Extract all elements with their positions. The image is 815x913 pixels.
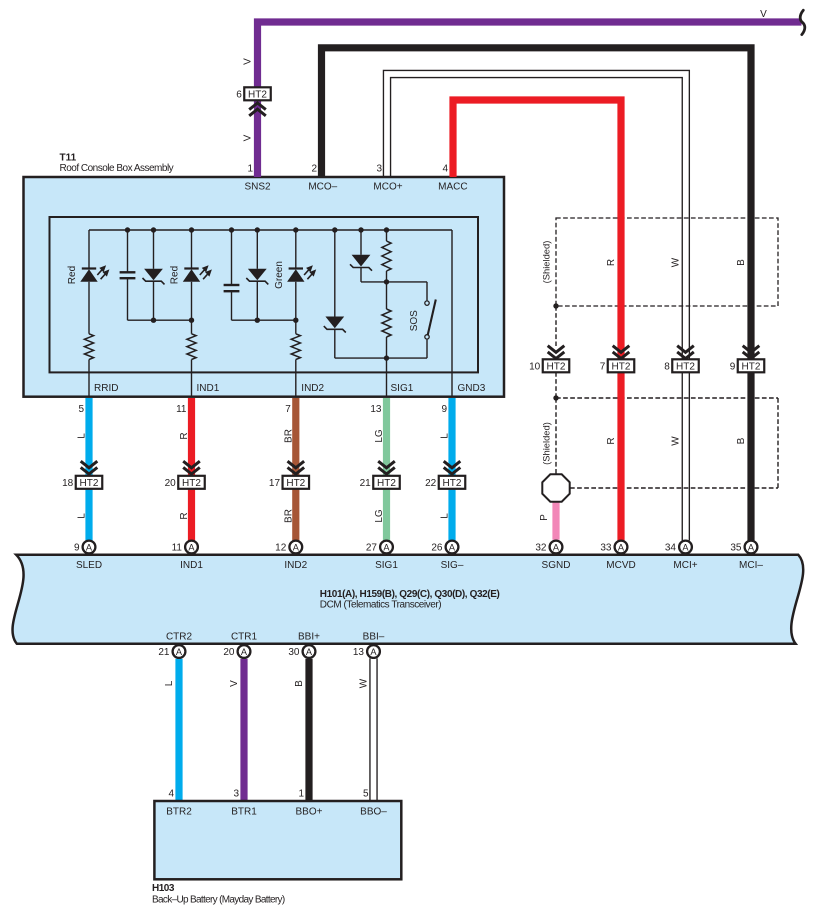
- wire resistor R4 to mid node: [386, 271, 388, 282]
- svg-text:10: 10: [529, 361, 541, 372]
- svg-text:P: P: [539, 514, 550, 521]
- wire SIG1 out: [386, 358, 388, 397]
- connector 8 HT2 chevron: [677, 346, 694, 353]
- svg-text:BTR2: BTR2: [166, 807, 192, 818]
- resistor R3: [291, 334, 300, 360]
- svg-text:A: A: [293, 542, 300, 552]
- svg-text:R: R: [606, 259, 617, 266]
- shielded cable dashed box upper: [556, 218, 778, 306]
- svg-text:RRID: RRID: [94, 383, 118, 394]
- svg-text:9: 9: [74, 543, 80, 554]
- svg-text:12: 12: [275, 543, 287, 554]
- zener diode ZD3: [325, 317, 344, 329]
- pin 21 circle CTR2: [173, 645, 186, 658]
- svg-text:SGND: SGND: [542, 560, 571, 571]
- svg-text:R: R: [179, 432, 190, 439]
- pin 33 circle MCVD: [615, 541, 628, 554]
- svg-text:2: 2: [311, 164, 317, 175]
- svg-text:A: A: [682, 542, 689, 552]
- svg-text:Green: Green: [274, 261, 285, 289]
- pin 32 circle SGND: [550, 541, 563, 554]
- wire L from T11 pin 9 to DCM SIG&#8211;: [448, 398, 455, 541]
- resistor R2: [187, 334, 196, 360]
- connector 8 HT2 box: [672, 359, 699, 372]
- svg-text:5: 5: [363, 789, 369, 800]
- svg-text:21: 21: [360, 478, 372, 489]
- pin 27 circle SIG1: [380, 541, 393, 554]
- svg-text:CTR2: CTR2: [166, 632, 193, 643]
- wire GND3 branch: [451, 230, 453, 397]
- svg-text:HT2: HT2: [248, 89, 267, 100]
- svg-text:7: 7: [600, 361, 606, 372]
- wire L from T11 pin 5 to DCM SLED: [85, 398, 92, 541]
- wire zener ZD1 to node: [153, 281, 155, 320]
- svg-text:L: L: [440, 513, 451, 519]
- svg-text:6: 6: [236, 89, 242, 100]
- junction dot ZD2 node: [255, 318, 260, 323]
- svg-text:SLED: SLED: [76, 560, 102, 571]
- svg-text:BBI+: BBI+: [298, 632, 320, 643]
- svg-text:IND1: IND1: [197, 383, 220, 394]
- svg-text:W: W: [671, 257, 682, 267]
- svg-text:27: 27: [366, 543, 378, 554]
- svg-text:BR: BR: [283, 509, 294, 523]
- svg-text:9: 9: [730, 361, 736, 372]
- connector 20 HT2 box: [178, 476, 205, 489]
- connector 17 HT2 chevron: [288, 461, 305, 468]
- wire P pink shield ground: [552, 500, 559, 540]
- svg-text:IND1: IND1: [180, 560, 203, 571]
- LED Red D1: [82, 267, 96, 269]
- svg-text:3: 3: [233, 789, 239, 800]
- resistor R5: [382, 309, 391, 337]
- wire break squiggle at right end of V wire: [800, 10, 805, 34]
- svg-text:4: 4: [442, 164, 448, 175]
- svg-text:BBO–: BBO–: [360, 807, 387, 818]
- svg-text:DCM (Telematics Transceiver): DCM (Telematics Transceiver): [320, 600, 441, 611]
- wire zener ZD1 branch: [153, 230, 155, 269]
- svg-text:18: 18: [62, 478, 74, 489]
- svg-text:(Shielded): (Shielded): [541, 422, 552, 465]
- pin 12 circle IND2: [289, 541, 302, 554]
- svg-text:L: L: [77, 513, 88, 519]
- wire W from DCM BBI&#8211; to battery BBO&#8211;: [369, 658, 371, 801]
- svg-text:HT2: HT2: [676, 361, 695, 372]
- pin 20 circle CTR1: [238, 645, 251, 658]
- svg-text:LG: LG: [374, 429, 385, 443]
- pin 34 circle MCI+: [679, 541, 692, 554]
- svg-text:HT2: HT2: [286, 478, 305, 489]
- zener diode ZD4: [352, 255, 371, 267]
- wire B black MCO- to MCI-: [322, 48, 752, 541]
- wire BR from T11 pin 7 to DCM IND2: [292, 398, 299, 541]
- svg-text:MCO+: MCO+: [373, 182, 402, 193]
- svg-text:CTR1: CTR1: [231, 632, 258, 643]
- connector 22 HT2 chevron: [444, 461, 461, 468]
- svg-text:A: A: [86, 542, 93, 552]
- svg-text:IND2: IND2: [301, 383, 324, 394]
- wire IND1 branch upper: [191, 230, 193, 269]
- svg-text:13: 13: [353, 647, 365, 658]
- wire resistor R5 upper: [386, 282, 388, 309]
- pin 13 circle BBI&#8211;: [367, 645, 380, 658]
- svg-text:B: B: [736, 259, 747, 266]
- svg-text:L: L: [77, 433, 88, 439]
- svg-text:22: 22: [425, 478, 437, 489]
- wire zener ZD4 branch: [360, 230, 362, 255]
- svg-text:A: A: [370, 647, 377, 657]
- H103 Back-Up Battery box: [154, 801, 401, 879]
- svg-text:20: 20: [223, 647, 235, 658]
- svg-text:SOS: SOS: [409, 310, 420, 331]
- svg-text:21: 21: [158, 647, 170, 658]
- svg-text:5: 5: [78, 404, 84, 415]
- node line IND2 group: [232, 319, 296, 321]
- shield drain dashed wire upper: [555, 306, 557, 346]
- connector 6 HT2 box: [244, 87, 271, 100]
- wire switch to bottom node: [426, 340, 428, 359]
- svg-text:W: W: [671, 436, 682, 446]
- wire capacitor C2 to node: [231, 291, 233, 320]
- connector 10 HT2 box: [543, 359, 570, 372]
- wire RRID branch lower: [88, 360, 90, 397]
- svg-text:R: R: [179, 512, 190, 519]
- wire zener ZD3 branch upper: [334, 230, 336, 317]
- svg-text:V: V: [229, 680, 240, 687]
- svg-text:H101(A), H159(B), Q29(C), Q30(: H101(A), H159(B), Q29(C), Q30(D), Q32(E): [320, 589, 500, 600]
- wire resistor R5 lower: [386, 337, 388, 358]
- svg-text:BTR1: BTR1: [231, 807, 257, 818]
- svg-text:H103: H103: [152, 883, 175, 894]
- svg-text:11: 11: [176, 404, 187, 415]
- svg-text:4: 4: [168, 789, 174, 800]
- svg-text:BBO+: BBO+: [296, 807, 323, 818]
- switch SOS blade: [428, 300, 436, 336]
- wire R red MACC to MCVD: [453, 100, 621, 541]
- wire IND2 branch lower: [295, 360, 297, 397]
- svg-text:HT2: HT2: [377, 478, 396, 489]
- svg-text:32: 32: [535, 543, 547, 554]
- connector 21 HT2 chevron: [378, 461, 395, 468]
- connector 18 HT2 chevron: [81, 461, 98, 468]
- wire zener ZD2 to node: [256, 281, 258, 320]
- connector 7 HT2 chevron: [613, 346, 630, 353]
- svg-text:W: W: [359, 678, 370, 688]
- connector 9 HT2 chevron: [743, 346, 760, 353]
- svg-text:HT2: HT2: [742, 361, 761, 372]
- wire capacitor C2 branch: [231, 230, 233, 285]
- svg-text:MCI+: MCI+: [673, 560, 697, 571]
- junction dot shield upper: [553, 303, 558, 308]
- wire IND1 branch middle: [191, 282, 193, 334]
- svg-text:26: 26: [431, 543, 443, 554]
- svg-text:A: A: [618, 542, 625, 552]
- svg-text:L: L: [440, 433, 451, 439]
- shield dashed link to lower box: [555, 372, 557, 398]
- svg-text:SIG1: SIG1: [375, 560, 398, 571]
- connector 18 HT2 box: [76, 476, 103, 489]
- svg-text:SIG1: SIG1: [391, 383, 414, 394]
- zener diode ZD2: [248, 269, 267, 281]
- switch SOS contact bottom: [425, 335, 429, 339]
- capacitor C1: [120, 271, 136, 273]
- svg-text:Back–Up Battery (Mayday Batter: Back–Up Battery (Mayday Battery): [152, 895, 285, 906]
- resistor R4: [382, 241, 391, 271]
- junction dot bottom node: [384, 355, 389, 360]
- pin 35 circle MCI&#8211;: [745, 541, 758, 554]
- connector 9 HT2 box: [738, 359, 765, 372]
- connector 21 HT2 box: [373, 476, 400, 489]
- svg-text:HT2: HT2: [182, 478, 201, 489]
- svg-text:Red: Red: [170, 266, 181, 284]
- svg-text:A: A: [553, 542, 560, 552]
- junction dot IND1 node: [189, 318, 194, 323]
- wire V purple SNS2 to HT2 and right edge: [258, 22, 802, 177]
- wire B from DCM BBI+ to battery BBO+: [305, 659, 312, 801]
- svg-text:V: V: [760, 9, 767, 20]
- svg-text:HT2: HT2: [443, 478, 462, 489]
- connector 22 HT2 box: [439, 476, 466, 489]
- DCM (Telematics Transceiver) band: [13, 555, 804, 644]
- svg-text:A: A: [306, 647, 313, 657]
- inner circuit box: [50, 217, 479, 372]
- connector 6 HT2 chevron: [249, 103, 266, 110]
- wire R from T11 pin 11 to DCM IND1: [188, 398, 195, 541]
- wire capacitor C1 branch: [127, 230, 129, 272]
- svg-text:HT2: HT2: [547, 361, 566, 372]
- svg-text:L: L: [164, 680, 175, 686]
- svg-text:T11: T11: [60, 153, 77, 164]
- svg-text:A: A: [241, 647, 248, 657]
- svg-text:Roof Console Box Assembly: Roof Console Box Assembly: [60, 163, 174, 174]
- connector 7 HT2 box: [608, 359, 635, 372]
- LED Red D2: [184, 267, 198, 269]
- svg-text:1: 1: [247, 164, 253, 175]
- svg-text:7: 7: [285, 404, 291, 415]
- wire V from DCM CTR1 to battery BTR1: [240, 659, 247, 801]
- svg-text:A: A: [748, 542, 755, 552]
- svg-text:35: 35: [730, 543, 742, 554]
- capacitor C2: [224, 284, 240, 286]
- svg-text:11: 11: [172, 543, 183, 554]
- svg-text:SNS2: SNS2: [244, 182, 271, 193]
- svg-text:17: 17: [269, 478, 281, 489]
- svg-text:V: V: [243, 58, 254, 65]
- pin 30 circle BBI+: [303, 645, 316, 658]
- svg-text:HT2: HT2: [612, 361, 631, 372]
- junction dot IND2 node: [293, 318, 298, 323]
- svg-text:30: 30: [288, 647, 300, 658]
- svg-text:BBI–: BBI–: [363, 632, 385, 643]
- shielded cable dashed box lower: [556, 397, 778, 399]
- svg-text:MCVD: MCVD: [606, 560, 635, 571]
- shield ground octagon symbol: [542, 474, 569, 501]
- wire RRID branch upper: [88, 230, 90, 269]
- bottom node line SIG group: [335, 357, 427, 359]
- wire zener ZD2 branch: [256, 230, 258, 269]
- wire zener ZD4 to mid node: [360, 268, 362, 282]
- svg-text:(Shielded): (Shielded): [541, 241, 552, 284]
- wire zener ZD3 lower: [334, 329, 336, 358]
- LED Green D3: [289, 267, 303, 269]
- svg-text:A: A: [176, 647, 183, 657]
- svg-text:HT2: HT2: [80, 478, 99, 489]
- svg-text:B: B: [736, 437, 747, 444]
- junction dot mid node: [384, 279, 389, 284]
- pin 26 circle SIG&#8211;: [446, 541, 459, 554]
- svg-text:A: A: [188, 542, 195, 552]
- svg-text:13: 13: [370, 404, 382, 415]
- wire LG from T11 pin 13 to DCM SIG1: [383, 398, 390, 541]
- wire L from DCM CTR2 to battery BTR2: [175, 659, 182, 801]
- svg-text:LG: LG: [374, 509, 385, 523]
- junction dots on top bus: [125, 227, 130, 232]
- svg-text:B: B: [294, 680, 305, 687]
- pin 9 circle SLED: [83, 541, 96, 554]
- junction dot shield lower: [553, 395, 558, 400]
- svg-text:33: 33: [600, 543, 612, 554]
- svg-text:R: R: [606, 437, 617, 444]
- svg-text:V: V: [243, 134, 254, 141]
- wire resistor R4 upper: [386, 230, 388, 241]
- wire IND2 branch upper: [295, 230, 297, 269]
- wire RRID branch middle: [88, 282, 90, 334]
- connector 10 HT2 chevron: [548, 346, 565, 353]
- svg-text:9: 9: [441, 404, 447, 415]
- svg-text:8: 8: [664, 361, 670, 372]
- svg-text:3: 3: [376, 164, 382, 175]
- node line IND1 group: [128, 319, 192, 321]
- svg-text:BR: BR: [283, 429, 294, 443]
- wire W white MCO+ to MCI+: [383, 70, 689, 540]
- mid node line SIG1: [361, 281, 427, 283]
- zener diode ZD1: [144, 269, 163, 281]
- wire switch drop: [426, 282, 428, 301]
- switch SOS contact top: [425, 301, 429, 305]
- svg-text:1: 1: [298, 789, 304, 800]
- T11 Roof Console Box Assembly outline: [24, 177, 505, 397]
- svg-text:SIG–: SIG–: [441, 560, 464, 571]
- resistor R1: [84, 334, 93, 360]
- wire IND2 branch middle: [295, 282, 297, 334]
- svg-text:GND3: GND3: [458, 383, 486, 394]
- connector 17 HT2 box: [283, 476, 310, 489]
- svg-text:Red: Red: [67, 266, 78, 284]
- wire capacitor C1 to node: [127, 278, 129, 320]
- pin 11 circle IND1: [185, 541, 198, 554]
- svg-text:A: A: [383, 542, 390, 552]
- svg-text:34: 34: [665, 543, 677, 554]
- junction dot ZD1 node: [151, 318, 156, 323]
- svg-text:20: 20: [165, 478, 177, 489]
- svg-text:A: A: [449, 542, 456, 552]
- svg-text:IND2: IND2: [284, 560, 307, 571]
- connector 20 HT2 chevron: [183, 461, 200, 468]
- wire IND1 branch lower: [191, 360, 193, 397]
- svg-text:MACC: MACC: [438, 182, 467, 193]
- top bus wire: [89, 229, 452, 231]
- svg-text:MCO–: MCO–: [308, 182, 337, 193]
- svg-text:MCI–: MCI–: [739, 560, 763, 571]
